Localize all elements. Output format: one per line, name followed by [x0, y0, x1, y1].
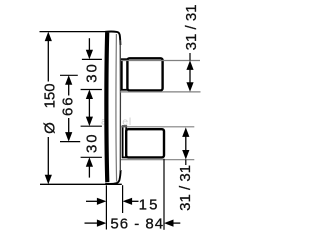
svg-text:Ø: Ø — [42, 122, 59, 134]
extension line knob front vertical — [163, 159, 165, 230]
dimension 56-84 arrow left — [164, 220, 174, 227]
dimension 66 tick top — [60, 74, 78, 76]
dimension O150 arrow down — [45, 175, 52, 185]
dimension 30 upper arrow down — [86, 50, 93, 60]
plate bottom edge — [105, 170, 120, 184]
extension line wall vertical — [105, 185, 107, 229]
dimension 66 line lower — [68, 118, 70, 133]
extension line knob1 bottom right — [120, 91, 201, 93]
svg-text:30: 30 — [83, 62, 100, 83]
dimension 30 upper line above — [88, 38, 90, 51]
plate face outer line — [119, 40, 121, 171]
dimension 15 tail left — [86, 200, 98, 202]
dimension 31/31 bottom arrow up — [182, 127, 189, 136]
knob 2 neck — [123, 126, 127, 157]
dimension 31/31 bottom stub — [185, 160, 187, 166]
dimension 56-84 tail right — [173, 222, 181, 224]
dimension 31/31 top arrow down — [186, 82, 193, 92]
svg-text:150: 150 — [42, 83, 59, 108]
dimension O150 arrow up — [45, 32, 52, 41]
knob 1 body — [127, 58, 162, 90]
dimension 31/31 top line — [189, 69, 191, 83]
dimension 30 lower arrow up — [86, 157, 93, 167]
dimension 66 tick bottom — [60, 141, 80, 143]
dimension 30 upper arrow up — [86, 90, 93, 100]
dimension 15 arrow right — [97, 198, 107, 205]
dimension 15 arrow left — [123, 198, 133, 205]
dimension O150 line upper — [47, 38, 49, 82]
extension line sleeve vertical — [122, 185, 124, 213]
dimension 31/31 bottom arrow down — [182, 150, 189, 160]
dimension 30 lower tick bottom — [81, 156, 102, 158]
dimension 56-84 tail left — [85, 222, 99, 224]
dimension 30 middle line — [88, 98, 90, 117]
extension line knob2 bottom right — [121, 159, 194, 161]
dimension 66 line upper — [68, 84, 70, 96]
svg-text:56 - 84: 56 - 84 — [110, 215, 164, 232]
dimension 30 lower tick top — [81, 125, 102, 127]
dimension 31/31 top stub — [189, 53, 191, 60]
knob 1 neck — [122, 59, 128, 90]
svg-text:15: 15 — [139, 196, 160, 213]
knob 2 body — [126, 129, 164, 157]
svg-text:31 / 31: 31 / 31 — [183, 4, 200, 50]
extension line knob2 top right — [121, 126, 194, 128]
dimension 30 upper tick bottom — [81, 89, 102, 91]
dimension 31/31 top arrow up — [186, 60, 193, 70]
extension line plate bottom — [40, 183, 122, 185]
dimension 15 tail right — [131, 200, 138, 202]
escutcheon plate body fill — [104, 32, 121, 184]
dimension 66 arrow up — [65, 75, 72, 85]
dimension 30 upper tick top — [82, 58, 102, 60]
plate face inner line — [115, 34, 118, 182]
dimension 30 lower line below — [88, 166, 90, 178]
plate left edge bar — [104, 33, 109, 183]
dimension 31/31 bottom line — [185, 136, 187, 151]
svg-text:66: 66 — [60, 96, 77, 117]
dimension 30 lower arrow down — [86, 117, 93, 127]
dimension 56-84 arrow right — [97, 220, 107, 227]
extension line knob1 top right — [121, 60, 200, 62]
dimension 66 arrow down — [65, 132, 72, 142]
svg-text:31 / 31: 31 / 31 — [177, 165, 194, 211]
extension line plate top — [40, 31, 106, 33]
plate top edge — [105, 32, 120, 45]
svg-text:30: 30 — [83, 132, 100, 153]
dimension O150 line lower — [47, 137, 49, 178]
